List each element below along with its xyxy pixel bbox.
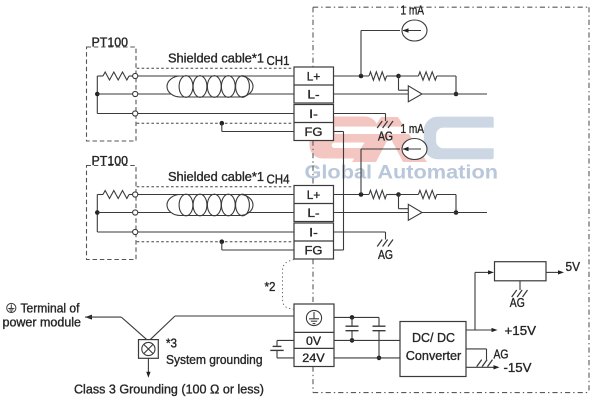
svg-text:1 mA: 1 mA — [401, 122, 425, 136]
svg-text:DC/ DC: DC/ DC — [412, 330, 455, 345]
svg-text:System grounding: System grounding — [166, 353, 263, 367]
svg-text:L-: L- — [307, 88, 319, 102]
svg-text:AG: AG — [510, 296, 525, 310]
svg-text:PT100: PT100 — [92, 36, 129, 50]
svg-text:L-: L- — [307, 206, 319, 220]
svg-text:Class 3 Grounding (100 Ω or le: Class 3 Grounding (100 Ω or less) — [74, 382, 264, 397]
svg-text:AG: AG — [378, 130, 393, 144]
svg-text:Terminal of: Terminal of — [21, 301, 81, 315]
svg-text:Shielded cable*1: Shielded cable*1 — [168, 52, 264, 66]
svg-text:FG: FG — [305, 244, 323, 258]
svg-text:PT100: PT100 — [92, 154, 129, 168]
svg-text:CH4: CH4 — [267, 173, 290, 187]
svg-text:I-: I- — [309, 226, 318, 240]
svg-text:FG: FG — [305, 125, 323, 139]
svg-text:Shielded cable*1: Shielded cable*1 — [168, 170, 264, 184]
svg-text:24V: 24V — [302, 351, 325, 365]
svg-text:*2: *2 — [265, 280, 276, 294]
svg-text:L+: L+ — [307, 188, 320, 202]
svg-text:Global Automation: Global Automation — [305, 162, 499, 184]
svg-text:0V: 0V — [306, 334, 322, 348]
svg-text:+15V: +15V — [505, 323, 537, 338]
svg-text:-15V: -15V — [504, 360, 532, 375]
svg-text:power module: power module — [3, 315, 82, 329]
svg-text:1 mA: 1 mA — [401, 4, 425, 18]
svg-text:*3: *3 — [166, 337, 177, 351]
svg-text:CH1: CH1 — [267, 54, 290, 68]
svg-text:AG: AG — [378, 248, 393, 262]
svg-text:5V: 5V — [566, 259, 581, 274]
svg-text:Converter: Converter — [406, 348, 462, 363]
svg-text:I-: I- — [309, 107, 318, 121]
svg-text:L+: L+ — [307, 70, 320, 84]
